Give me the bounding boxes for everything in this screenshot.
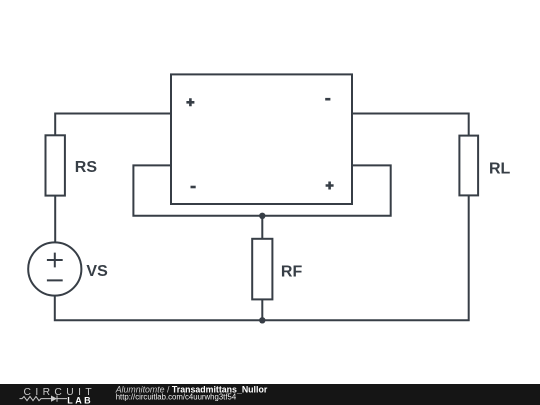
footer bar	[0, 384, 540, 405]
wire feedback loop U1 bottom-left to U1 bottom-right	[133, 165, 390, 215]
pin label - (U1 bottom-left)	[191, 186, 196, 189]
VS plus sign	[47, 253, 63, 268]
junction node RF bottom	[259, 317, 265, 323]
svg-text:RL: RL	[489, 160, 511, 177]
svg-text:RF: RF	[281, 263, 303, 280]
voltage source VS body	[28, 242, 81, 295]
wire RS bottom to VS top	[54, 196, 56, 243]
svg-text:VS: VS	[86, 263, 108, 280]
svg-text:RS: RS	[75, 159, 98, 176]
wire RS top to U1 + input	[55, 114, 171, 136]
resistor RF body	[252, 239, 272, 300]
wire U1 - output to RL top	[352, 114, 469, 136]
pin label + (U1 bottom-right)	[326, 182, 334, 190]
svg-text:http://circuitlab.com/c4uurwhg: http://circuitlab.com/c4uurwhg3tf54	[116, 393, 237, 402]
svg-text:LAB: LAB	[67, 395, 93, 405]
pin label + (U1 top-left)	[186, 98, 194, 106]
junction node RF top	[259, 213, 265, 219]
VS minus sign	[47, 279, 63, 281]
wire VS bottom along ground rail to RL bottom	[55, 195, 469, 320]
wire RF bottom	[261, 299, 263, 320]
footer logo resistor-diode glyph	[20, 396, 68, 402]
pin label - (U1 top-right)	[325, 98, 330, 101]
resistor RS body	[46, 135, 65, 195]
resistor RL body	[459, 136, 478, 196]
wire RF top	[261, 216, 263, 239]
nullor U1 body	[171, 74, 352, 204]
